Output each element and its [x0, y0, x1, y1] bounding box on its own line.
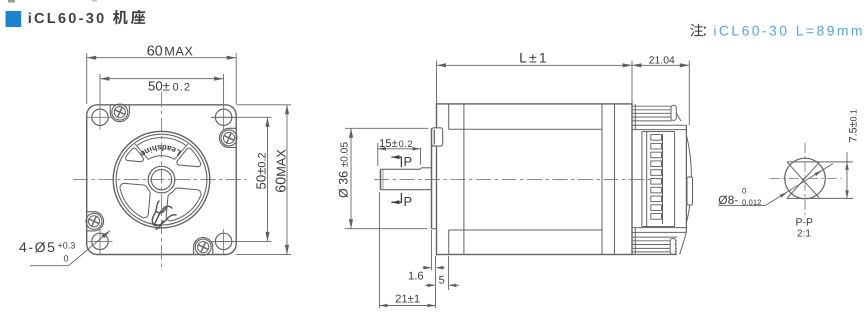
- Leadshine label band: [148, 156, 174, 160]
- dim 50±0.2 top: [99, 74, 101, 104]
- shaft: [381, 168, 420, 170]
- connector pins: [651, 135, 662, 141]
- rear connector plate: [632, 124, 686, 126]
- dim 1.6: [431, 230, 433, 270]
- svg-text:0: 0: [64, 254, 69, 264]
- front cap lines: [448, 104, 450, 129]
- front view centerlines: [73, 179, 247, 181]
- rear fins bottom: [632, 236, 677, 238]
- dim 60MAX right vertical: [236, 104, 291, 106]
- title block: [6, 11, 22, 27]
- mounting hole top-right: [215, 109, 231, 125]
- note top-right: [690, 24, 703, 37]
- svg-text:iCL60-30 L=89mm: iCL60-30 L=89mm: [713, 23, 865, 39]
- svg-text:1.6: 1.6: [408, 271, 424, 283]
- cover screw right: [219, 128, 236, 147]
- dim 50±0.2 right vertical: [211, 116, 272, 118]
- rear fins top: [632, 105, 672, 107]
- dim 21.04: [688, 61, 690, 126]
- cover window upper-left: [126, 148, 144, 162]
- svg-text:iCL60-30: iCL60-30: [28, 11, 107, 27]
- svg-text:L±1: L±1: [519, 49, 549, 65]
- hub circles: [148, 166, 175, 193]
- svg-text:P: P: [404, 154, 413, 169]
- front view flange outline: [87, 105, 237, 255]
- svg-text:P-P: P-P: [795, 216, 813, 228]
- svg-text:4-Ø5: 4-Ø5: [19, 239, 57, 255]
- svg-text:MAX: MAX: [164, 44, 193, 58]
- svg-text:0: 0: [742, 187, 747, 196]
- svg-text:2:1: 2:1: [797, 229, 811, 240]
- svg-text:5: 5: [439, 275, 445, 287]
- dim 7.5±0.1: [846, 152, 848, 199]
- cover screw top: [110, 105, 129, 122]
- body inner horizontal lines: [449, 128, 602, 130]
- signature squiggle: [152, 201, 176, 229]
- side view centerline: [374, 178, 650, 180]
- connector right bulge: [686, 135, 691, 223]
- section mark P upper: [391, 157, 401, 167]
- section mark P lower: [391, 193, 401, 202]
- svg-text:Ø8-: Ø8-: [718, 193, 738, 207]
- dim Ø36±0.05: [345, 127, 428, 129]
- svg-text:50±0.2: 50±0.2: [254, 153, 269, 190]
- svg-text:Ø 36 ±0.05: Ø 36 ±0.05: [337, 142, 351, 198]
- svg-text:21.04: 21.04: [649, 56, 675, 67]
- connector body: [641, 132, 643, 227]
- svg-text:21±1: 21±1: [395, 294, 420, 306]
- mounting hole top-left: [92, 109, 108, 125]
- svg-text:0.012: 0.012: [742, 198, 762, 207]
- svg-text:0.2: 0.2: [399, 139, 413, 149]
- dim Ø8 diameter line with leader: [766, 164, 834, 206]
- svg-text:P: P: [404, 194, 413, 209]
- svg-text:60MAX: 60MAX: [274, 149, 290, 193]
- rear cap lines: [601, 104, 603, 255]
- mounting hole bottom-left: [92, 233, 108, 249]
- cover screw bottom: [194, 238, 213, 255]
- dim 60MAX top: [86, 53, 88, 104]
- rotor cover outer circles: [113, 131, 210, 228]
- svg-text:50±: 50±: [148, 78, 170, 93]
- cover window lower-left: [120, 183, 150, 217]
- cover window lower-right: [166, 188, 201, 221]
- dim 15±0.2: [377, 143, 379, 166]
- svg-text:15±: 15±: [379, 138, 398, 150]
- svg-text:60: 60: [147, 43, 163, 59]
- pilot boss: [431, 128, 433, 228]
- svg-text:+0.3: +0.3: [58, 241, 76, 251]
- side view body outline: [437, 104, 633, 255]
- dim L±1: [436, 61, 438, 104]
- P-P section centerlines: [770, 178, 841, 180]
- shaft section circle: [785, 158, 826, 199]
- svg-text:7.5±0.1: 7.5±0.1: [848, 109, 860, 142]
- dim 21±1: [378, 192, 380, 308]
- cover window upper-right: [177, 148, 201, 167]
- mounting hole bottom-right: [215, 233, 231, 249]
- dim 5: [448, 256, 450, 290]
- small tab on flange: [432, 128, 443, 146]
- top edge remnants: [8, 0, 15, 3]
- svg-text:0.2: 0.2: [173, 81, 192, 93]
- cover screw left: [87, 212, 104, 231]
- flat chords (top and bottom): [787, 161, 853, 163]
- inscribed cross-hatch diagonals: [787, 162, 819, 198]
